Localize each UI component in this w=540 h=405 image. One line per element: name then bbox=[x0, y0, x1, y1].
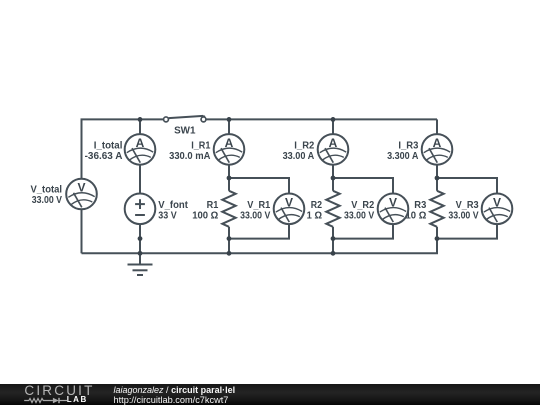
wire V_R3 loop bottom bbox=[437, 224, 497, 239]
svg-text:R3: R3 bbox=[414, 200, 426, 211]
wire branch1 top bbox=[139, 119, 141, 134]
voltmeter V_R2 bbox=[378, 194, 409, 225]
svg-text:-36.63 A: -36.63 A bbox=[85, 151, 123, 162]
ammeter I_R3 bbox=[422, 134, 453, 165]
svg-text:V_font: V_font bbox=[158, 200, 188, 211]
svg-text:33 V: 33 V bbox=[158, 211, 177, 222]
resistor R2 bbox=[326, 191, 339, 227]
wire branch2 middle bbox=[228, 165, 230, 191]
svg-text:33.00 V: 33.00 V bbox=[344, 211, 374, 222]
wire bottom rail bbox=[82, 239, 438, 254]
wire branch3 bottom bbox=[332, 227, 334, 254]
junction top rail branch1 bbox=[138, 117, 143, 122]
junction branch1 below source bbox=[138, 236, 143, 241]
switch SW1 bbox=[164, 116, 206, 122]
wire branch2 bottom bbox=[228, 227, 230, 254]
CircuitLab logo LAB bbox=[67, 395, 88, 404]
svg-text:SW1: SW1 bbox=[174, 126, 196, 137]
wire left vertical lower segment bbox=[81, 209, 83, 253]
wire branch4 middle bbox=[436, 165, 438, 191]
junction branch3 node B bbox=[331, 176, 336, 181]
wire top rail left segment bbox=[82, 119, 164, 178]
ammeter I_total bbox=[125, 134, 156, 165]
svg-text:33.00 V: 33.00 V bbox=[32, 195, 62, 206]
ground bbox=[128, 253, 153, 275]
voltmeter V_total bbox=[66, 179, 97, 210]
footer credit line bbox=[114, 385, 236, 395]
wire top rail right segment bbox=[206, 118, 437, 120]
ammeter I_R2 bbox=[318, 134, 349, 165]
junction top rail branch2 bbox=[227, 117, 232, 122]
CircuitLab logo resistor-diode glyph bbox=[23, 395, 69, 405]
svg-text:33.00 V: 33.00 V bbox=[448, 211, 478, 222]
svg-text:R1: R1 bbox=[207, 200, 219, 211]
resistor R1 bbox=[222, 191, 235, 227]
junction top rail branch3 bbox=[331, 117, 336, 122]
junction branch4 below R3 bbox=[435, 236, 440, 241]
junction bottom rail branch2 bbox=[227, 251, 232, 256]
svg-text:V_R1: V_R1 bbox=[247, 200, 270, 211]
voltmeter V_R1 bbox=[274, 194, 305, 225]
svg-text:V_R2: V_R2 bbox=[351, 200, 374, 211]
wire V_R3 loop top bbox=[437, 178, 497, 194]
wire V_R1 loop top bbox=[229, 178, 289, 194]
resistor R3 bbox=[430, 191, 443, 227]
wire branch4 top bbox=[436, 119, 438, 134]
wire branch3 top bbox=[332, 119, 334, 134]
wire branch1 bottom bbox=[139, 224, 141, 253]
svg-text:3.300 A: 3.300 A bbox=[387, 151, 418, 162]
ammeter I_R1 bbox=[214, 134, 245, 165]
wire branch3 middle bbox=[332, 165, 334, 191]
svg-text:1 Ω: 1 Ω bbox=[307, 211, 322, 222]
svg-text:R2: R2 bbox=[311, 200, 323, 211]
wire branch4 bottom bbox=[436, 227, 438, 254]
junction branch3 below R2 bbox=[331, 236, 336, 241]
footer bar bbox=[0, 384, 540, 405]
wire V_R2 loop bottom bbox=[333, 224, 393, 239]
junction branch2 node A bbox=[227, 176, 232, 181]
wire branch2 top bbox=[228, 119, 230, 134]
voltage source V_font bbox=[125, 194, 156, 225]
footer url line bbox=[114, 395, 229, 405]
wire V_R1 loop bottom bbox=[229, 224, 289, 239]
svg-text:100 Ω: 100 Ω bbox=[192, 211, 218, 222]
svg-text:33.00 A: 33.00 A bbox=[283, 151, 315, 162]
junction branch4 node C bbox=[435, 176, 440, 181]
junction bottom rail branch3 bbox=[331, 251, 336, 256]
svg-text:330.0 mA: 330.0 mA bbox=[169, 151, 210, 162]
svg-text:33.00 V: 33.00 V bbox=[240, 211, 270, 222]
wire branch1 middle bbox=[139, 165, 141, 194]
svg-text:V_R3: V_R3 bbox=[456, 200, 479, 211]
voltmeter V_R3 bbox=[482, 194, 513, 225]
wire V_R2 loop top bbox=[333, 178, 393, 194]
junction bottom rail branch1 bbox=[138, 251, 143, 256]
CircuitLab logo CIRCUIT bbox=[24, 383, 94, 398]
junction branch2 below R1 bbox=[227, 236, 232, 241]
